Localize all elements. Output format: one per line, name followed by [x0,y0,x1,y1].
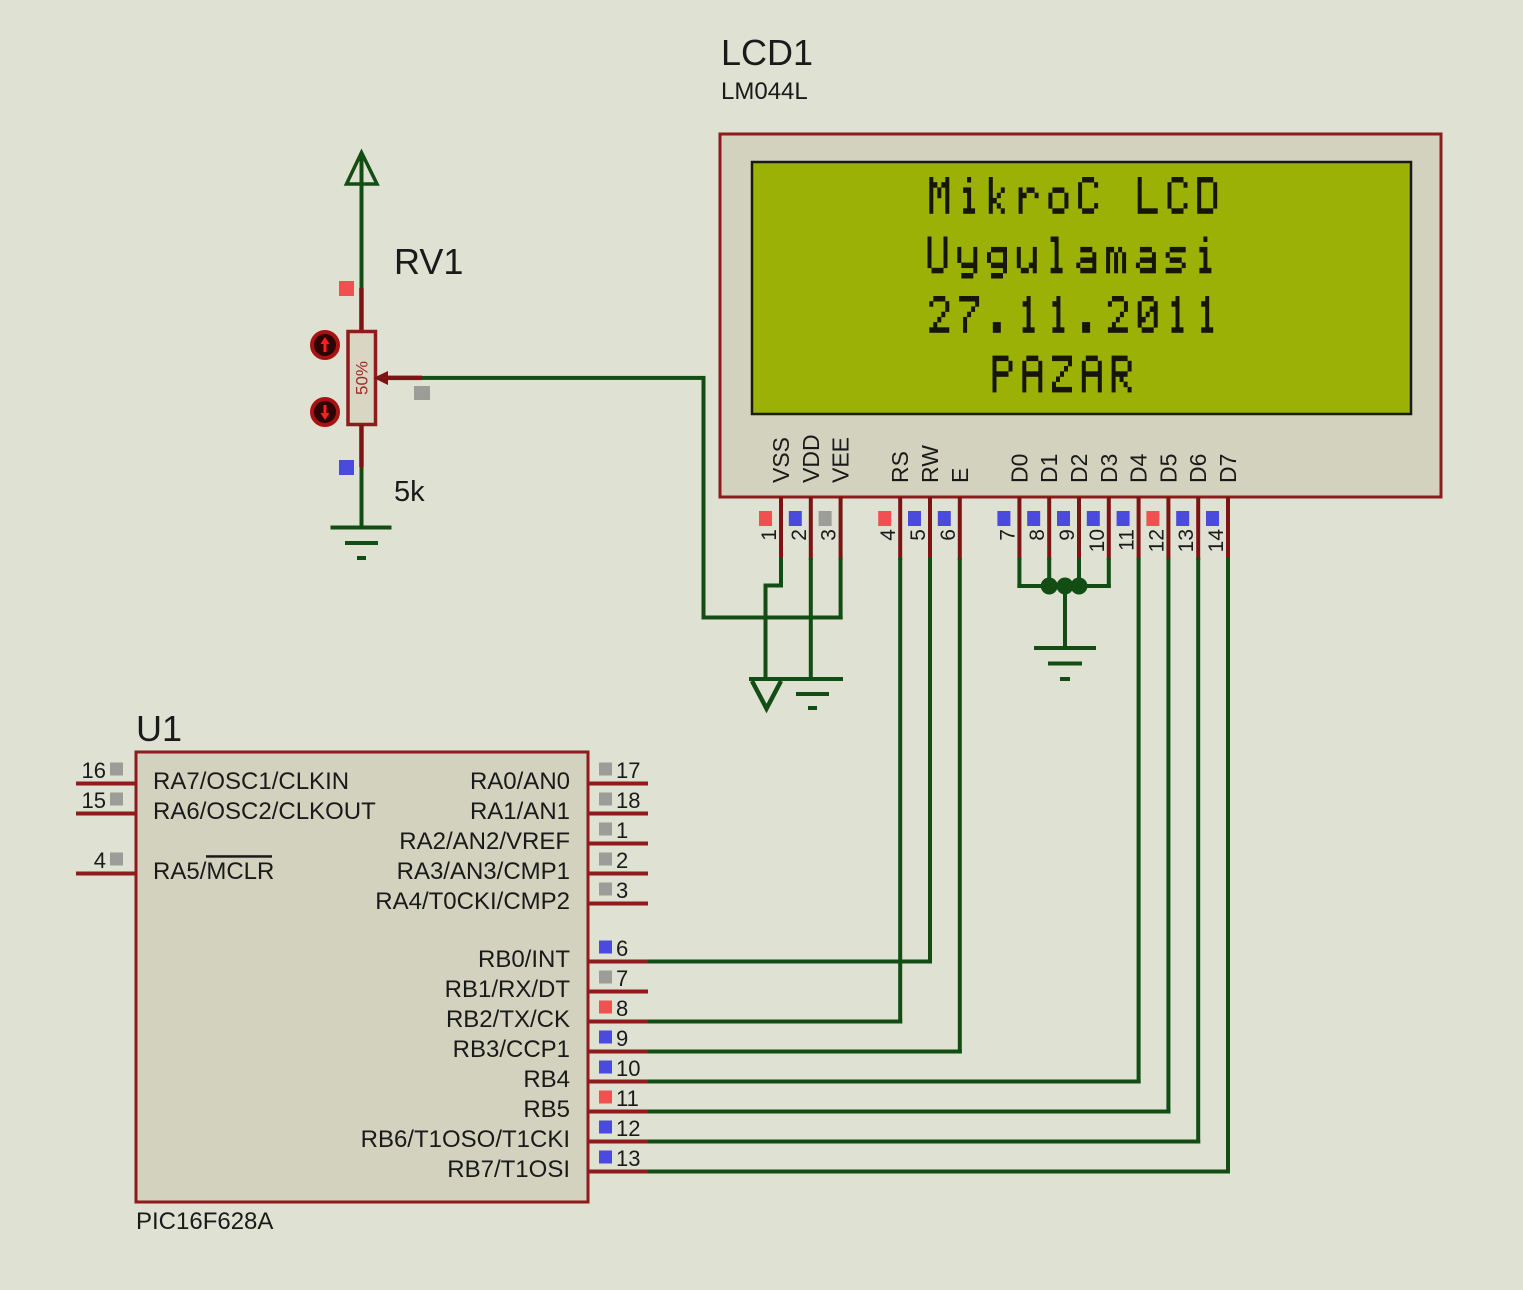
svg-text:RA1/AN1: RA1/AN1 [470,798,570,825]
svg-text:RA3/AN3/CMP1: RA3/AN3/CMP1 [397,858,570,885]
svg-text:6: 6 [937,529,960,541]
svg-text:RB6/T1OSO/T1CKI: RB6/T1OSO/T1CKI [361,1126,570,1153]
svg-text:D6: D6 [1185,454,1211,483]
svg-text:18: 18 [616,788,640,813]
svg-text:15: 15 [82,788,106,813]
svg-text:12: 12 [616,1116,640,1141]
svg-text:7: 7 [996,529,1019,541]
svg-text:10: 10 [616,1056,640,1081]
svg-text:LM044L: LM044L [721,78,808,105]
svg-text:D7: D7 [1215,454,1241,483]
svg-text:E: E [947,468,973,483]
svg-text:RB5: RB5 [523,1096,570,1123]
svg-text:D4: D4 [1126,453,1152,483]
svg-text:LCD1: LCD1 [721,32,813,73]
svg-text:RA7/OSC1/CLKIN: RA7/OSC1/CLKIN [153,768,349,795]
svg-text:11: 11 [616,1086,639,1111]
svg-text:14: 14 [1205,529,1228,553]
svg-text:12: 12 [1145,529,1168,552]
svg-text:RA6/OSC2/CLKOUT: RA6/OSC2/CLKOUT [153,798,376,825]
svg-text:PIC16F628A: PIC16F628A [136,1208,273,1235]
svg-text:8: 8 [616,996,628,1021]
svg-text:11: 11 [1116,529,1139,551]
svg-text:8: 8 [1026,529,1049,541]
svg-text:9: 9 [616,1026,628,1051]
svg-text:13: 13 [1175,529,1198,552]
svg-text:RB2/TX/CK: RB2/TX/CK [446,1006,570,1033]
svg-text:D1: D1 [1036,454,1062,483]
svg-text:6: 6 [616,936,628,961]
svg-text:VSS: VSS [768,437,794,483]
svg-text:4: 4 [877,529,900,541]
svg-text:RA0/AN0: RA0/AN0 [470,768,570,795]
svg-text:D5: D5 [1155,454,1181,483]
svg-text:RB4: RB4 [523,1066,570,1093]
svg-text:13: 13 [616,1146,640,1171]
svg-text:10: 10 [1086,529,1109,552]
svg-text:D0: D0 [1006,454,1032,483]
svg-text:16: 16 [82,758,106,783]
svg-text:2: 2 [788,529,811,541]
svg-text:RB7/T1OSI: RB7/T1OSI [447,1156,570,1183]
svg-text:3: 3 [818,529,841,541]
svg-text:5k: 5k [394,476,425,508]
svg-text:RB0/INT: RB0/INT [478,946,570,973]
svg-text:RW: RW [917,445,943,483]
svg-text:D3: D3 [1096,454,1122,483]
svg-text:RA2/AN2/VREF: RA2/AN2/VREF [399,828,570,855]
svg-text:D2: D2 [1066,454,1092,483]
svg-text:5: 5 [907,529,930,541]
svg-text:RS: RS [887,451,913,483]
svg-text:4: 4 [94,848,106,873]
svg-text:2: 2 [616,848,628,873]
svg-text:RV1: RV1 [394,241,463,282]
svg-text:1: 1 [758,529,781,541]
svg-text:7: 7 [616,966,628,991]
svg-text:U1: U1 [136,708,182,749]
svg-text:RA5/MCLR: RA5/MCLR [153,858,274,885]
svg-text:9: 9 [1056,529,1079,541]
svg-text:RA4/T0CKI/CMP2: RA4/T0CKI/CMP2 [375,888,570,915]
svg-text:50%: 50% [353,361,372,395]
svg-text:RB3/CCP1: RB3/CCP1 [453,1036,570,1063]
svg-text:RB1/RX/DT: RB1/RX/DT [445,976,571,1003]
svg-text:3: 3 [616,878,628,903]
svg-text:17: 17 [616,758,640,783]
svg-text:VDD: VDD [798,434,824,483]
svg-text:1: 1 [616,818,628,843]
svg-text:VEE: VEE [828,437,854,483]
